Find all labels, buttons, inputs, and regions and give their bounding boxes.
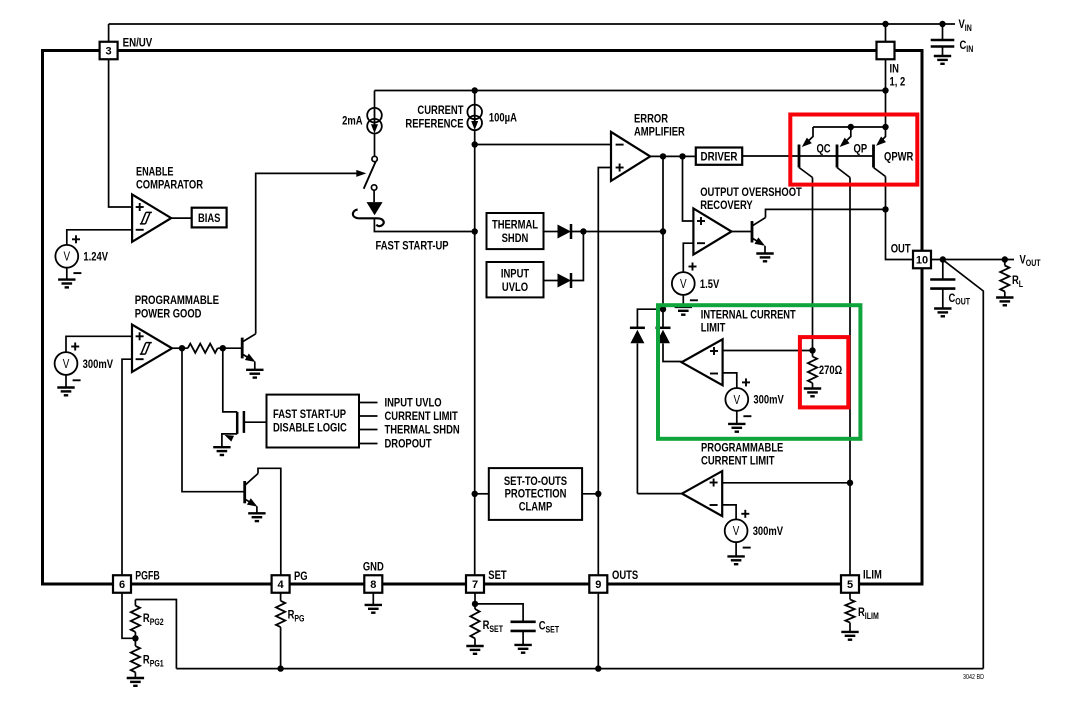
svg-text:8: 8	[370, 579, 376, 591]
transistor Q1 NPN	[241, 338, 244, 359]
svg-text:FAST START-UP: FAST START-UP	[376, 238, 449, 252]
svg-text:RECOVERY: RECOVERY	[700, 198, 753, 212]
wire jog to diode D4	[637, 309, 663, 328]
ground CIN	[934, 56, 951, 64]
svg-text:100µA: 100µA	[489, 110, 517, 124]
pin 4 PG	[272, 575, 290, 593]
wire U5 non-inverting input to 270ohm	[723, 350, 813, 352]
wire Q2 collector to pin 4	[258, 468, 281, 575]
wire pin3 to enable comparator	[109, 59, 133, 207]
wire SET to clamp	[475, 493, 489, 495]
ground V3	[675, 307, 692, 315]
svg-text:QP: QP	[854, 141, 868, 155]
ground CSET	[514, 645, 531, 653]
wire U2 output	[172, 347, 188, 349]
wire IN pin to VIN rail	[885, 24, 887, 42]
svg-text:PROGRAMMABLE: PROGRAMMABLE	[135, 293, 219, 307]
svg-text:V: V	[733, 524, 740, 538]
block INPUT UVLO	[487, 262, 544, 297]
wire enable comparator inverting input	[67, 230, 132, 245]
wire M1 gate to logic box	[244, 421, 267, 423]
ground RSET	[466, 646, 483, 654]
svg-text:V: V	[63, 357, 70, 371]
wire node A to Q2 base	[182, 348, 245, 492]
block SET-TO-OUTS PROTECTION CLAMP	[489, 468, 582, 520]
wire VIN rail	[109, 23, 955, 25]
svg-text:1.24V: 1.24V	[83, 250, 108, 264]
svg-text:SET: SET	[488, 568, 507, 582]
svg-text:QC: QC	[817, 141, 831, 155]
svg-text:INPUT UVLO: INPUT UVLO	[385, 396, 442, 410]
svg-text:EN/UV: EN/UV	[123, 35, 153, 49]
switch SW1 fast start-up	[372, 156, 377, 161]
op-amp U6 programmable current limit	[682, 471, 722, 516]
wire U6 output to D4	[637, 493, 682, 495]
pin 6 PGFB	[113, 575, 131, 593]
pin 10 OUT	[913, 251, 931, 269]
capacitor CIN	[942, 24, 944, 40]
svg-text:RPG1: RPG1	[143, 653, 164, 669]
wire error amp inverting input	[475, 144, 611, 146]
node Q1 base node	[220, 345, 226, 351]
current source I1 2mA	[367, 108, 382, 134]
wire rail left end to RPG2	[135, 600, 176, 669]
node rail RPG junction	[277, 665, 283, 671]
diode D5	[656, 327, 671, 330]
node emitter rail QPWR	[882, 124, 888, 130]
svg-text:ERROR: ERROR	[634, 111, 668, 125]
svg-text:RILIM: RILIM	[858, 605, 879, 621]
wire logic output DROPOUT	[359, 443, 378, 445]
wire node B vertical	[662, 156, 664, 327]
svg-text:300mV: 300mV	[83, 357, 114, 371]
pin 9 OUTS	[589, 575, 607, 593]
node SET-FSU junction	[472, 228, 478, 234]
svg-text:1.5V: 1.5V	[700, 277, 720, 291]
svg-text:CURRENT LIMIT: CURRENT LIMIT	[701, 454, 775, 468]
node EA out C	[679, 153, 685, 159]
resistor R1 (base resistor)	[188, 344, 218, 353]
node VOUT-RL junction	[1002, 256, 1008, 262]
svg-text:300mV: 300mV	[753, 524, 784, 538]
wire logic output INPUT UVLO	[359, 402, 378, 404]
wire QC collector	[812, 178, 814, 351]
svg-text:COUT: COUT	[949, 291, 971, 307]
svg-text:GND: GND	[363, 560, 384, 574]
wire node B to diodes junction	[660, 306, 666, 312]
source V4 300mV	[725, 388, 748, 411]
svg-text:LIMIT: LIMIT	[701, 320, 726, 334]
ground M1 source	[213, 447, 230, 455]
capacitor CSET	[475, 604, 523, 622]
svg-text:7: 7	[472, 579, 478, 591]
node OUTS clamp junction	[595, 491, 601, 497]
wire 2mA source stub	[374, 91, 376, 109]
svg-text:DROPOUT: DROPOUT	[385, 437, 432, 451]
wire U6 non-inverting input to ILIM	[722, 482, 850, 484]
svg-text:V: V	[734, 393, 741, 407]
wire U1 output to BIAS	[171, 217, 192, 219]
wire logic output THERMAL SHDN	[359, 429, 378, 431]
svg-text:V: V	[680, 277, 687, 291]
source V2 300mV	[55, 352, 78, 375]
svg-text:ILIM: ILIM	[863, 568, 882, 582]
op-amp U3 error amplifier	[611, 132, 650, 181]
capacitor COUT	[942, 260, 944, 280]
ground RILIM	[841, 632, 858, 640]
svg-text:10: 10	[916, 255, 928, 267]
resistor RPG1	[134, 638, 136, 646]
resistor RL	[1004, 260, 1006, 266]
svg-text:RSET: RSET	[483, 618, 504, 634]
wire current reference stub	[474, 91, 476, 105]
ground V5	[727, 556, 744, 564]
resistor RSET	[474, 593, 476, 604]
source V3 1.5V	[672, 272, 695, 295]
wire D4 to U6 output	[636, 343, 638, 493]
transistor QP PNP	[836, 145, 839, 168]
pin 5 ILIM	[841, 575, 859, 593]
svg-text:VOUT: VOUT	[1020, 252, 1041, 268]
transistor QPWR PNP	[872, 145, 875, 168]
wire Q1 emitter to ground	[254, 362, 256, 370]
svg-text:SHDN: SHDN	[502, 231, 529, 245]
source V1 1.24V	[55, 245, 78, 268]
wire clamp to OUTS	[582, 493, 598, 495]
svg-text:OUTPUT OVERSHOOT: OUTPUT OVERSHOOT	[700, 185, 802, 199]
wire QP collector to ILIM	[849, 178, 851, 576]
wire U2 inverting input from PGFB	[122, 359, 132, 575]
op-amp U4 output overshoot recovery	[693, 208, 731, 254]
wire IN pin vertical	[885, 59, 887, 127]
svg-text:2mA: 2mA	[342, 114, 362, 128]
svg-text:9: 9	[595, 579, 601, 591]
svg-text:OUT: OUT	[891, 241, 911, 255]
svg-text:CSET: CSET	[539, 619, 560, 635]
wire THERMAL SHDN to diode D2	[544, 231, 558, 233]
ground V1	[58, 280, 75, 288]
node D2-D3 junction	[580, 228, 586, 234]
transistor Q2 NPN	[243, 481, 246, 503]
chip boundary	[43, 51, 923, 585]
block FAST START-UP DISABLE LOGIC	[267, 395, 360, 448]
svg-text:V: V	[64, 250, 71, 264]
pin 7 SET	[466, 575, 484, 593]
svg-text:OUTS: OUTS	[612, 568, 638, 582]
block BIAS	[192, 208, 227, 228]
ground pin 8	[372, 593, 374, 605]
op-amp U1 enable comparator	[132, 194, 171, 241]
wire switch to diode D1	[373, 190, 375, 202]
wire D3 to D2 node	[571, 232, 583, 281]
diode D3	[558, 274, 572, 288]
svg-text:COMPARATOR: COMPARATOR	[136, 178, 203, 192]
node B lower junction	[660, 228, 666, 234]
diode D4	[630, 327, 645, 330]
svg-text:DRIVER: DRIVER	[701, 149, 738, 163]
resistor RPG2	[134, 600, 136, 606]
svg-text:AMPLIFIER: AMPLIFIER	[634, 124, 685, 138]
node VIN-IN junction	[882, 21, 888, 27]
block DRIVER	[696, 148, 742, 165]
current source I2 100uA current reference	[467, 105, 482, 131]
node 270ohm top	[809, 347, 815, 353]
diode D1 fast start-up clamp	[367, 202, 383, 215]
wire error amp non-inverting input	[598, 168, 611, 576]
wire D5 to U5 output	[663, 343, 682, 361]
wire VOUT feedback to bottom rail	[944, 260, 984, 668]
svg-text:1, 2: 1, 2	[890, 75, 906, 89]
ground RPG1	[127, 678, 144, 686]
svg-text:INPUT: INPUT	[501, 266, 530, 280]
transistor QC PNP	[798, 145, 801, 168]
ground V2	[57, 388, 74, 396]
wire INPUT UVLO to diode D3	[544, 280, 558, 282]
svg-text:QPWR: QPWR	[884, 149, 913, 163]
arrow switch control	[356, 170, 366, 177]
svg-text:BIAS: BIAS	[198, 211, 221, 225]
wire node to M1 drain	[223, 348, 237, 412]
ground RL	[996, 298, 1013, 306]
wire Q3 emitter ground	[764, 246, 766, 254]
resistor RPG	[280, 593, 282, 601]
wire bottom VOUT rail	[176, 668, 983, 670]
wire Q2 emitter to ground	[256, 506, 258, 513]
node EA out B	[660, 153, 666, 159]
annotation red box output transistors	[790, 115, 917, 185]
svg-text:THERMAL SHDN: THERMAL SHDN	[385, 423, 460, 437]
svg-text:5: 5	[847, 579, 853, 591]
svg-text:RL: RL	[1012, 273, 1023, 289]
svg-text:6: 6	[119, 579, 125, 591]
wire logic output CURRENT LIMIT	[359, 415, 378, 417]
svg-text:REFERENCE: REFERENCE	[405, 117, 463, 131]
ground Q3 emitter	[756, 254, 773, 262]
svg-text:RPG: RPG	[288, 608, 305, 624]
pin IN 1,2	[877, 42, 895, 60]
svg-text:PROGRAMMABLE: PROGRAMMABLE	[701, 441, 783, 455]
svg-text:UVLO: UVLO	[502, 280, 528, 294]
wire U4 output to Q3 base	[732, 231, 753, 233]
wire SET vertical to pin 7	[474, 130, 476, 575]
wire Q3 collector to QPWR collector	[766, 209, 886, 217]
svg-text:POWER GOOD: POWER GOOD	[135, 306, 202, 320]
wire D1 to SET node	[374, 218, 474, 231]
wire internal top rail	[375, 90, 886, 92]
node OUT-COUT junction	[940, 256, 946, 262]
ground COUT	[934, 309, 951, 317]
op-amp U5 internal current limit	[682, 339, 723, 385]
svg-text:CLAMP: CLAMP	[519, 500, 553, 514]
source V5 300mV	[725, 519, 748, 542]
wire M1 source to ground	[222, 434, 237, 447]
node emitter rail QP	[848, 124, 854, 130]
pin 3 EN/UV	[100, 42, 118, 60]
diode D2	[558, 225, 572, 239]
svg-text:THERMAL: THERMAL	[492, 217, 538, 231]
node U2 output A	[179, 345, 185, 351]
annotation green box internal current limit	[658, 305, 860, 439]
svg-text:ENABLE: ENABLE	[136, 165, 174, 179]
op-amp U2 power good comparator	[132, 325, 172, 372]
ground Q2 emitter	[248, 513, 265, 521]
svg-text:300mV: 300mV	[753, 393, 784, 407]
wire I1 to switch	[374, 134, 376, 157]
svg-text:3042 BD: 3042 BD	[963, 674, 984, 681]
wire D2 to node B	[571, 231, 663, 233]
svg-text:4: 4	[278, 579, 285, 591]
wire U2 non-inverting input	[66, 336, 132, 352]
node ILIM sense junction	[847, 480, 853, 486]
svg-text:PGFB: PGFB	[135, 569, 160, 583]
wire OUTS below pin 9	[597, 593, 599, 669]
svg-text:270Ω: 270Ω	[819, 363, 842, 377]
annotation red box 270ohm	[800, 337, 848, 407]
svg-text:VIN: VIN	[959, 17, 973, 33]
node top rail current reference	[472, 87, 478, 93]
wire DRIVER to output transistors	[742, 155, 873, 157]
wire error amp output	[650, 155, 696, 157]
wire emitter rail	[813, 126, 886, 128]
block THERMAL SHDN	[487, 213, 544, 249]
svg-text:RPG2: RPG2	[143, 611, 164, 627]
wire Q1 collector to switch control	[256, 173, 358, 333]
ground Q1 emitter	[246, 370, 263, 378]
svg-text:DISABLE LOGIC: DISABLE LOGIC	[273, 421, 347, 435]
svg-text:3: 3	[106, 46, 112, 58]
wire U5 inverting input to V4	[723, 373, 737, 388]
node rail OUTS junction	[595, 665, 601, 671]
transistor Q3 NPN	[751, 221, 754, 243]
ground R2	[804, 389, 821, 397]
wire pin3 to VIN rail	[108, 24, 110, 42]
node IN-toprail junction	[882, 87, 888, 93]
svg-text:FAST START-UP: FAST START-UP	[273, 407, 346, 421]
node SET-EA junction	[472, 141, 478, 147]
svg-text:PG: PG	[294, 569, 308, 583]
wire pin 6 to divider	[122, 593, 135, 639]
svg-text:CURRENT LIMIT: CURRENT LIMIT	[385, 409, 459, 423]
wire U6 inverting input to V5	[722, 505, 736, 520]
svg-text:CIN: CIN	[960, 38, 974, 54]
svg-text:INTERNAL CURRENT: INTERNAL CURRENT	[701, 307, 796, 321]
node SET-clamp junction	[472, 491, 478, 497]
node QPWR-Q3 junction	[882, 206, 888, 212]
transistor M1 NMOS	[236, 412, 239, 434]
ground V4	[728, 424, 745, 432]
wire R1 to Q1 base	[218, 347, 243, 349]
wire OUT pin to VOUT	[931, 259, 1014, 261]
node RPG2-RPG1 junction	[132, 635, 138, 641]
node VIN-CIN junction	[939, 21, 945, 27]
pin 8 GND	[364, 575, 382, 593]
wire QPWR collector to OUT	[886, 177, 914, 260]
wire node C to U4 non-inverting input	[683, 156, 694, 221]
svg-text:IN: IN	[890, 62, 899, 76]
resistor RILIM	[849, 593, 851, 600]
svg-text:CURRENT: CURRENT	[417, 103, 463, 117]
resistor R2 270ohm	[812, 351, 814, 357]
wire U4 inverting input to V3	[683, 243, 693, 272]
